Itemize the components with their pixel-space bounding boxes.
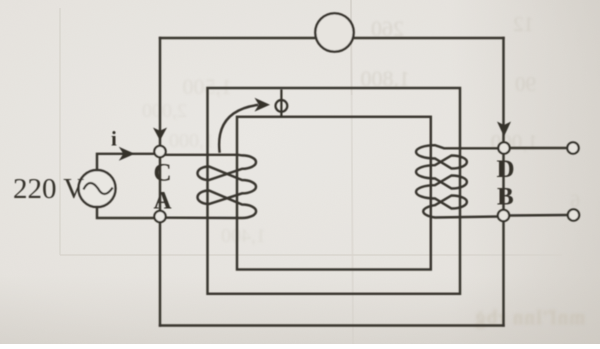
svg-text:220 V: 220 V	[13, 173, 84, 205]
flux arrow curve	[219, 105, 257, 152]
faint page fold line	[350, 0, 353, 95]
primary coil P1	[166, 155, 256, 218]
wire: node B to right terminal	[510, 214, 567, 217]
current arrow i head	[119, 147, 135, 161]
secondary coil S1	[416, 145, 498, 217]
wire: source bottom lead	[97, 207, 155, 218]
wire: right vertical down to node D	[502, 38, 504, 142]
svg-text:D: D	[497, 156, 515, 183]
svg-text:1,400: 1,400	[221, 225, 266, 247]
svg-text:90: 90	[515, 72, 536, 96]
ac source circle	[79, 170, 116, 207]
wire: node D to right terminal	[510, 147, 567, 149]
svg-text:i: i	[111, 127, 117, 151]
wire: top horizontal right of lamp	[352, 37, 504, 39]
down arrow into node C	[153, 128, 167, 141]
lamp/meter circle on top wire	[315, 13, 353, 51]
node C	[154, 146, 165, 157]
down arrow into node D	[497, 122, 511, 137]
svg-text:12: 12	[513, 12, 534, 36]
transformer core outer rectangle	[208, 88, 461, 294]
circuit ink	[79, 13, 568, 325]
node D	[498, 142, 509, 153]
node B	[498, 210, 509, 221]
wire: left vertical C to A	[159, 158, 161, 211]
svg-text:B: B	[497, 184, 514, 211]
wire: top loop from node C up and across	[159, 38, 161, 147]
wire: right vertical B to bottom	[502, 221, 504, 326]
faint bleed-through text (mirrored)	[142, 12, 580, 247]
wire: right vertical D to B	[502, 154, 504, 210]
svg-text:A: A	[154, 187, 172, 214]
faint figure box edges	[59, 8, 61, 255]
svg-text:C: C	[154, 160, 172, 187]
transformer core inner rectangle	[237, 117, 431, 270]
svg-text:2,000: 2,000	[142, 100, 187, 122]
flux symbol phi	[276, 90, 288, 118]
node A	[154, 211, 165, 222]
output terminal top	[567, 142, 578, 153]
wire: left vertical A to bottom	[159, 222, 161, 326]
wire: top horizontal	[160, 37, 316, 39]
wire: source top lead	[97, 154, 155, 170]
wire: bottom horizontal	[160, 324, 504, 326]
ac source sine symbol	[84, 183, 112, 194]
flux arrow head	[255, 98, 271, 112]
output terminal bottom	[568, 209, 579, 220]
